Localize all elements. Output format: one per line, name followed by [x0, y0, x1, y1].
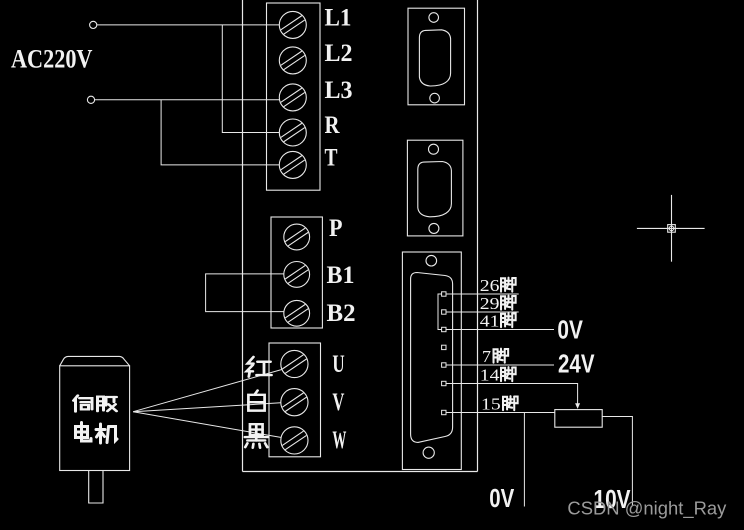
- wire 0V drop from pin15 net: [523, 413, 525, 507]
- wire link B1 to B2: [206, 274, 284, 312]
- wire colour label 白: [248, 390, 264, 410]
- potentiometer body: [555, 410, 602, 428]
- servo motor body: [60, 366, 130, 471]
- svg-text:0V: 0V: [489, 483, 515, 513]
- wire colour label 黑: [245, 424, 268, 448]
- svg-text:V: V: [332, 389, 344, 416]
- terminal screw V: [281, 389, 308, 416]
- AC terminal node 2: [87, 96, 94, 103]
- terminal screw B1: [284, 262, 310, 288]
- svg-text:7: 7: [482, 347, 491, 366]
- terminal screw R: [279, 119, 306, 146]
- servo drive left edge: [242, 0, 244, 472]
- svg-text:41: 41: [480, 312, 500, 331]
- motor label 机: [96, 424, 117, 443]
- wire motor to V (white): [133, 403, 281, 412]
- arrowhead at wiper: [575, 403, 580, 409]
- svg-text:L3: L3: [325, 77, 353, 104]
- connector CN3 top screw hole: [426, 255, 437, 266]
- wire pin 41 to 0V: [446, 329, 554, 331]
- connector CN1 top screw hole: [429, 13, 439, 23]
- connector CN1 D shell: [419, 30, 450, 86]
- pin 14: [442, 381, 446, 385]
- servo drive right edge: [477, 0, 479, 472]
- wire colour label 红: [247, 357, 272, 377]
- AC terminal node 1: [90, 21, 97, 28]
- motor terminal block outline: [269, 343, 321, 457]
- pin 29: [442, 310, 446, 314]
- pin 15: [442, 410, 446, 414]
- svg-text:R: R: [325, 112, 341, 139]
- svg-text:L1: L1: [325, 4, 352, 31]
- pin 41: [442, 327, 446, 331]
- connector CN3 D shell: [411, 273, 453, 443]
- svg-text:0V: 0V: [557, 315, 583, 345]
- wire branch down to T: [161, 100, 279, 165]
- wire motor to W (black): [133, 412, 281, 438]
- servo drive bottom edge: [243, 471, 478, 473]
- svg-text:CSDN @night_Ray: CSDN @night_Ray: [567, 499, 726, 520]
- connector CN1 plate: [408, 8, 465, 105]
- pin 7: [442, 363, 446, 367]
- CAD crosshair cursor: [637, 195, 705, 262]
- svg-text:W: W: [332, 427, 346, 454]
- terminal screw L1: [279, 11, 306, 38]
- terminal screw L3: [279, 84, 306, 111]
- wire pin 26: [446, 293, 519, 295]
- brake terminal block outline: [271, 217, 322, 328]
- pin 26: [442, 292, 446, 296]
- terminal screw U: [281, 350, 308, 377]
- wire AC2 to L3: [95, 99, 280, 101]
- connector CN2 D shell: [418, 162, 452, 217]
- svg-text:26: 26: [480, 276, 500, 295]
- svg-text:24V: 24V: [558, 348, 595, 378]
- connector CN2 top screw hole: [429, 144, 439, 154]
- power terminal block outline: [267, 3, 321, 190]
- wire potentiometer right to 10V: [602, 417, 632, 506]
- svg-text:L2: L2: [325, 40, 353, 67]
- connector CN2 bottom screw hole: [429, 223, 439, 233]
- svg-text:B2: B2: [327, 300, 356, 327]
- svg-text:B1: B1: [327, 262, 355, 289]
- servo motor top cap: [60, 356, 130, 365]
- bracket joining pins 26 29 41: [438, 294, 442, 330]
- svg-text:29: 29: [480, 294, 500, 313]
- wire motor to U (red): [133, 370, 282, 412]
- wire pin 14 to potentiometer wiper: [446, 384, 578, 405]
- svg-text:15: 15: [481, 395, 501, 414]
- svg-text:U: U: [332, 351, 344, 378]
- terminal screw W: [281, 427, 308, 454]
- svg-text:P: P: [329, 215, 343, 242]
- wire AC1 to L1: [97, 24, 279, 26]
- servo motor shaft: [89, 471, 103, 504]
- svg-text:14: 14: [480, 366, 500, 385]
- motor label 伺: [74, 396, 93, 412]
- wire branch down to R: [222, 25, 279, 133]
- wire pin 15 to potentiometer left: [446, 412, 555, 414]
- terminal screw P: [284, 224, 310, 250]
- terminal screw L2: [279, 47, 306, 74]
- connector CN2 plate: [407, 140, 463, 236]
- pin unused: [442, 345, 446, 349]
- terminal screw B2: [284, 300, 310, 326]
- svg-text:AC220V: AC220V: [11, 45, 93, 74]
- motor label 服: [98, 397, 117, 411]
- connector CN3 plate: [402, 252, 461, 470]
- wire pin 29: [446, 311, 519, 313]
- motor label 电: [76, 423, 92, 442]
- wire pin 7 to 24V: [446, 364, 554, 366]
- svg-text:T: T: [325, 144, 338, 171]
- terminal screw T: [279, 151, 306, 178]
- connector CN1 bottom screw hole: [430, 93, 440, 103]
- connector CN3 bottom screw hole: [423, 447, 434, 458]
